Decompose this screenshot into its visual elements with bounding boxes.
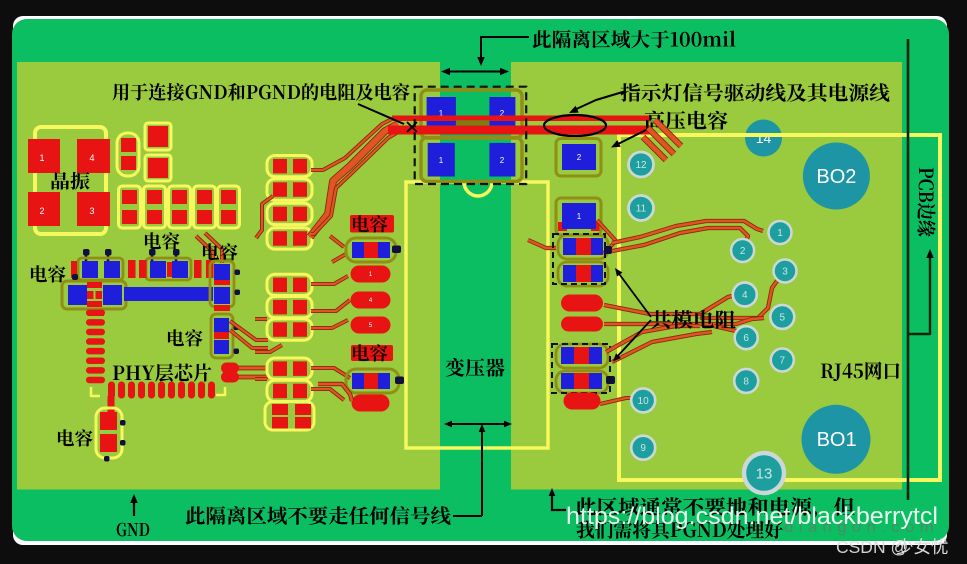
label 高压电容 [645, 111, 728, 130]
capacitor C1 [117, 133, 139, 176]
capacitor C9 pair [146, 258, 191, 280]
RJ45 label RJ45网口 [821, 362, 900, 381]
label 电容 (left) [31, 265, 66, 282]
transformer T1 outline [406, 182, 548, 448]
label 此隔离区域不要走任何信号线 [186, 506, 451, 525]
capacitor C10 pair [62, 281, 126, 309]
RJ45 pin 7 [771, 349, 794, 372]
svg-text:2: 2 [740, 246, 746, 257]
crystal label 晶振 [52, 172, 90, 190]
wire to C14 [330, 236, 344, 247]
wire TP4 left [318, 384, 352, 401]
isolation strip (dark green) [440, 62, 511, 490]
wire differential pair B [606, 326, 700, 352]
wire cluster1 left [256, 196, 273, 238]
crystal Y1 outline [35, 127, 106, 234]
svg-text:4: 4 [89, 153, 94, 163]
PHY chip left pins [86, 310, 105, 317]
label 此隔离区域大于100mil [532, 30, 735, 48]
svg-text:5: 5 [780, 312, 786, 323]
C16 pad 2 [489, 143, 515, 177]
wire bridge to T1 [528, 240, 556, 248]
svg-text:2: 2 [500, 156, 505, 165]
pad P7 [564, 393, 601, 410]
RJ45 pin 12 [629, 152, 654, 177]
capacitor C12 [211, 314, 233, 358]
keepout dashed A [553, 234, 605, 284]
PCB edge arrow [908, 254, 930, 334]
svg-text:1: 1 [39, 153, 44, 163]
isolation width arrow bottom [447, 423, 509, 425]
wire cluster3 [311, 368, 350, 378]
PCB edge line [907, 39, 910, 500]
label 用于连接GND和PGND的电阻及电容 [113, 83, 410, 101]
test pad TP1 [351, 266, 391, 283]
bridge capacitor C16 outline [421, 138, 522, 182]
capacitor C13 [96, 408, 122, 458]
series resistor column R1-R9 [267, 156, 312, 177]
label 电容 (right column) [168, 329, 203, 346]
keepout dashed B [552, 344, 610, 393]
svg-text:BO1: BO1 [817, 429, 857, 451]
PHY silk corner marks [91, 387, 100, 396]
crystal pad 3 [77, 192, 110, 226]
crystal pad 1 [28, 139, 60, 173]
svg-text:12: 12 [635, 160, 647, 171]
capacitor C21 [556, 344, 608, 368]
label 此区域通常不要地和电源，但 [576, 497, 855, 518]
pad P6 [561, 317, 603, 332]
svg-text:3: 3 [782, 267, 788, 278]
capacitor C20 [558, 262, 608, 286]
capacitor C22 [556, 371, 608, 393]
wire LED drive pair [612, 221, 763, 243]
RJ45 pin 11 [629, 196, 654, 221]
wire stubs to RJ45 [655, 120, 681, 146]
label 电容 (C15) [351, 345, 393, 361]
wire bundle to bridge [310, 124, 398, 237]
bridge resistor R10 outline [421, 90, 522, 138]
R10 pad 2 [489, 97, 515, 129]
wire to decoupling caps [196, 236, 213, 263]
label 我们需将其PGND处理好 [577, 520, 783, 539]
crystal pad 2 [28, 192, 60, 226]
R10 pad 1 [427, 97, 456, 130]
wire PHY to series resistors [230, 321, 268, 340]
isolation width arrow [444, 71, 506, 73]
label PCB边缘 (vertical) [917, 168, 935, 237]
RJ45 pin 3 [774, 260, 797, 283]
capacitor C14 [346, 238, 396, 262]
ellipse highlight [544, 115, 606, 136]
wire PHY lower pair [232, 366, 268, 371]
signal layout region (light green) [17, 62, 902, 490]
RJ45 pin 9 [631, 436, 655, 460]
transformer label 变压器 [446, 358, 505, 377]
crystal pad 4 [77, 139, 110, 173]
bridge silk olive bar [456, 120, 489, 125]
callout arrow (PGND region) [551, 492, 553, 511]
callout bracket [481, 37, 529, 61]
svg-text:7: 7 [780, 356, 786, 367]
capacitor C8 pair [78, 258, 123, 280]
svg-text:BO2: BO2 [816, 166, 856, 188]
via dots C13 [120, 420, 126, 426]
callout wire (bridge) [358, 104, 404, 124]
ground label GND [117, 523, 150, 537]
label 共模电阻 [651, 310, 736, 329]
transformer pin-1 notch [464, 182, 492, 196]
svg-text:https://blog.csdn.net/blackber: https://blog.csdn.net/blackberrytcl [566, 503, 938, 530]
via stitching dots [83, 249, 90, 256]
capacitor C15 [346, 369, 399, 393]
RJ45 shield BO1 [802, 405, 871, 474]
RJ45 connector outline [619, 135, 940, 480]
callout wire (no signal) [453, 515, 482, 517]
pad P5 [561, 295, 603, 312]
capacitor C17 (high voltage) [556, 139, 601, 177]
RJ45 pin 10 [631, 388, 655, 412]
capacitor C18 pad [556, 198, 601, 235]
test pad TP2 [351, 292, 391, 309]
svg-text:13: 13 [756, 465, 773, 482]
svg-text:11: 11 [636, 204, 647, 215]
svg-text:1: 1 [439, 156, 444, 165]
RJ45 pin 1 [769, 221, 792, 244]
wire pin to C13 [108, 396, 115, 412]
callout wire (HV cap) [614, 128, 650, 146]
label 电容 (C14) [350, 215, 394, 233]
RJ45 pin 5 [770, 305, 794, 329]
net GND-PGND bridge track B [388, 126, 651, 135]
PHY chip label PHY层芯片 [113, 363, 212, 381]
callout wire (LED) [572, 91, 626, 111]
test pad TP4 [352, 395, 390, 412]
callout X mark [407, 122, 417, 132]
svg-text:4: 4 [742, 290, 748, 301]
RJ45 pin 13 [744, 453, 784, 493]
net GND-PGND bridge track A [392, 116, 651, 122]
capacitor C19 [558, 235, 608, 259]
svg-text:2: 2 [577, 153, 582, 162]
RJ45 pin 14 [745, 120, 782, 157]
blue power trace [124, 287, 213, 301]
callout wires (common mode) [617, 271, 651, 317]
via dots right column [235, 270, 241, 276]
RJ45 pin 4 [733, 283, 757, 307]
label 指示灯信号驱动线及其电源线 [620, 83, 889, 102]
label 电容 (cap bank) [145, 232, 180, 249]
RJ45 pin 2 [731, 239, 754, 262]
RJ45 shield BO2 [803, 143, 870, 210]
bridge keepout (dashed) [415, 87, 527, 184]
wire differential pair A [604, 294, 740, 314]
label 电容 (upper right) [203, 243, 238, 260]
svg-text:14: 14 [756, 130, 772, 146]
test pad TP3 [351, 317, 391, 334]
pad red corners [558, 222, 567, 231]
svg-text:9: 9 [640, 443, 646, 454]
RJ45 pin 6 [735, 326, 758, 349]
svg-text:1: 1 [577, 212, 582, 221]
capacitor C2 [145, 123, 171, 150]
capacitor C11 [210, 261, 234, 307]
PHY chip bottom pins [108, 382, 115, 399]
RJ45 pin 8 [734, 369, 758, 393]
svg-text:3: 3 [89, 206, 94, 216]
label 电容 (bottom) [58, 429, 93, 446]
pads between caps [128, 260, 136, 278]
capacitor bank C3-C7 [119, 186, 141, 228]
svg-text:6: 6 [743, 333, 749, 344]
wire cluster2 right [311, 300, 350, 311]
wire cluster2 left [255, 317, 267, 321]
svg-text:1: 1 [777, 228, 783, 239]
C16 pad 1 [428, 143, 455, 177]
ground symbol GND arrow [133, 499, 135, 516]
svg-text:2: 2 [39, 206, 44, 216]
resistor network 2x2 [265, 402, 314, 431]
svg-text:10: 10 [638, 396, 650, 407]
svg-text:8: 8 [743, 376, 749, 387]
